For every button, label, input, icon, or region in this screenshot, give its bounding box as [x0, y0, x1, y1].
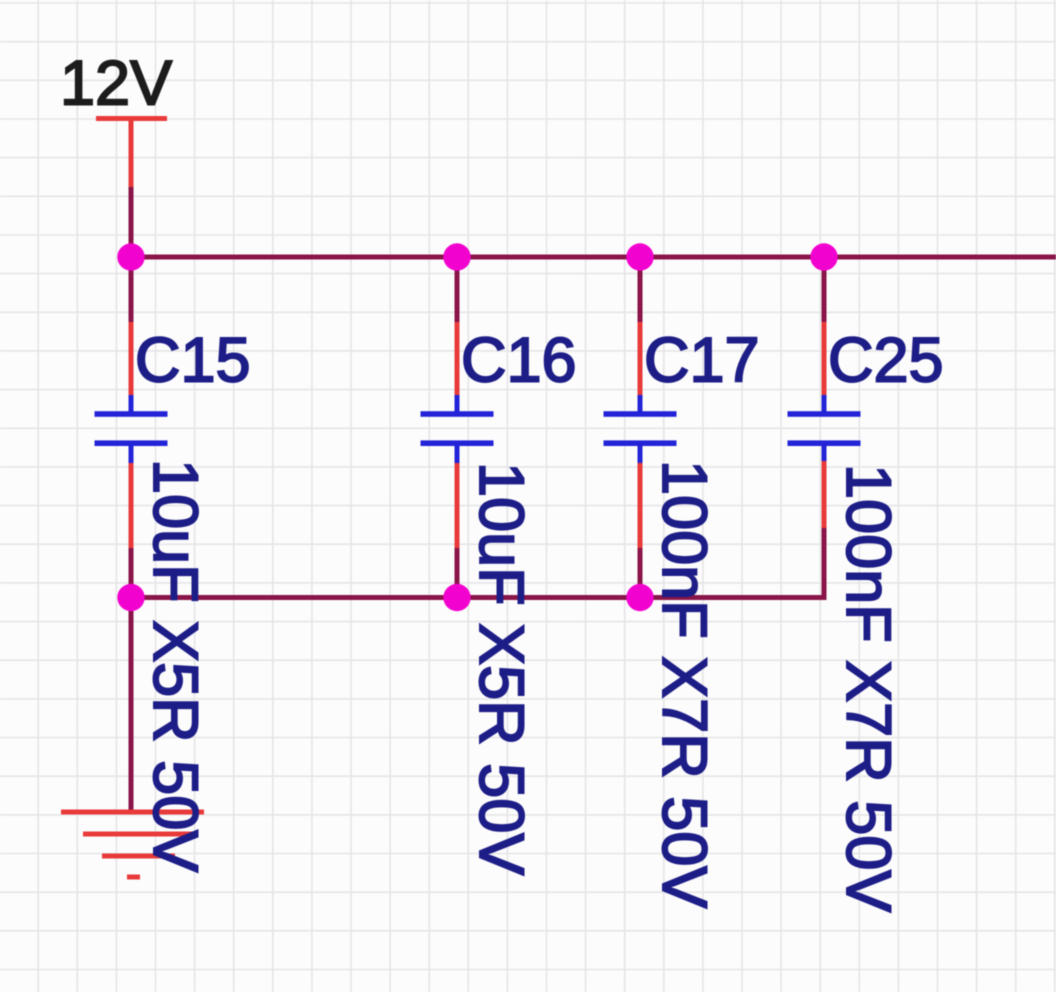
svg-text:C17: C17 — [644, 326, 760, 396]
svg-text:10uF X5R 50V: 10uF X5R 50V — [140, 459, 210, 872]
svg-text:12V: 12V — [60, 49, 172, 119]
svg-text:C25: C25 — [828, 326, 944, 396]
svg-text:100nF X7R 50V: 100nF X7R 50V — [833, 464, 903, 912]
svg-text:10uF X5R 50V: 10uF X5R 50V — [466, 462, 536, 875]
svg-text:C15: C15 — [135, 326, 251, 396]
svg-text:C16: C16 — [461, 326, 577, 396]
svg-text:100nF X7R 50V: 100nF X7R 50V — [649, 460, 719, 908]
